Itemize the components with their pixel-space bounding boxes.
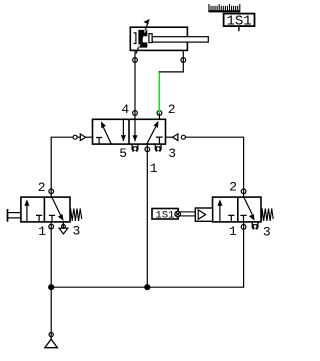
right 3/2 right box: blocked T (port 1) bbox=[240, 215, 246, 222]
svg-text:5: 5 bbox=[119, 146, 127, 161]
cylinder body bbox=[130, 27, 187, 50]
svg-text:2: 2 bbox=[168, 102, 176, 117]
svg-text:1: 1 bbox=[229, 224, 237, 239]
marker stem bbox=[238, 26, 240, 31]
distance rule bbox=[209, 4, 240, 12]
connection circles bbox=[49, 58, 246, 337]
left 3/2 push button bbox=[7, 209, 9, 222]
wire right valve port 1 to bus bbox=[243, 222, 245, 287]
svg-text:2: 2 bbox=[229, 180, 237, 195]
5/2 pilot left (14) bbox=[77, 136, 80, 138]
cylinder cushion bracket bbox=[134, 33, 136, 44]
compressed air supply bbox=[45, 339, 58, 348]
5/2 pilot right (12) bbox=[166, 136, 173, 138]
5/2 right box: flow 1-2 arrow bbox=[147, 126, 156, 144]
svg-text:3: 3 bbox=[263, 225, 271, 240]
green pressurized line bbox=[158, 72, 160, 113]
cylinder piston rod bbox=[152, 37, 208, 42]
wire cylinder left port to valve port 4 bbox=[134, 50, 136, 119]
5/2 muffler port 3 bbox=[155, 144, 162, 152]
left 3/2 right box: blocked T (port 1) bbox=[49, 215, 55, 222]
left 3/2 valve body bbox=[21, 197, 70, 222]
right 3/2 valve body bbox=[213, 197, 262, 222]
svg-text:1S1: 1S1 bbox=[156, 209, 175, 221]
junction dot left bbox=[48, 284, 54, 290]
left 3/2 right box: flow 2-3 arrow bbox=[52, 197, 61, 215]
svg-text:3: 3 bbox=[168, 146, 176, 161]
wire cylinder right port down bbox=[182, 50, 184, 72]
svg-text:3: 3 bbox=[73, 224, 81, 239]
5/2 muffler port 5 bbox=[132, 144, 139, 152]
left 3/2 exhaust triangle port 3 bbox=[59, 228, 68, 234]
svg-text:2: 2 bbox=[38, 180, 46, 195]
right 3/2 left box: blocked T bbox=[228, 215, 234, 222]
left 3/2 left box: blocked T bbox=[36, 215, 42, 222]
svg-text:1: 1 bbox=[150, 161, 158, 176]
right 3/2 return spring bbox=[262, 208, 274, 221]
wire valve port 1 to bus bbox=[146, 144, 148, 287]
5/2 left box: flow 2-3 down arrow bbox=[122, 119, 124, 141]
right 3/2 actuator box bbox=[195, 208, 212, 221]
5/2 left box: blocked port T bbox=[96, 138, 102, 145]
right 3/2 left box: flow up arrow bbox=[219, 205, 221, 222]
right 3/2 muffler port 3 bbox=[252, 222, 259, 230]
5/2 right box: blocked port T bbox=[156, 137, 163, 144]
valve 5/2 body bbox=[93, 119, 166, 144]
right 3/2 label box 1S1 bbox=[152, 209, 178, 220]
right 3/2 actuation fork bbox=[180, 211, 195, 213]
svg-text:1: 1 bbox=[38, 224, 46, 239]
wire left valve port 1 to air supply bbox=[50, 222, 52, 339]
wire valve port 2 stub bbox=[158, 113, 160, 119]
5/2 left box: flow 1-4 arrow bbox=[103, 127, 111, 144]
junction dot middle bbox=[144, 284, 150, 290]
wire pilot 12 to right valve port 2 bbox=[185, 137, 243, 197]
cylinder piston (magnet) bbox=[138, 30, 147, 48]
left 3/2 left box: flow up arrow bbox=[26, 205, 28, 222]
wire horizontal corner bbox=[159, 71, 184, 73]
wire pilot 14 to left valve port 2 bbox=[51, 137, 73, 197]
right 3/2 right box: flow 2-3 arrow bbox=[244, 198, 252, 215]
label 1S1 marker box on distance rule bbox=[224, 14, 255, 27]
cylinder rod mount bbox=[149, 34, 152, 43]
right 3/2 coupling circle bbox=[175, 211, 181, 217]
wire bottom bus bbox=[51, 286, 244, 288]
svg-text:4: 4 bbox=[121, 102, 129, 117]
left 3/2 return spring bbox=[70, 208, 82, 221]
5/2 right box: flow 4-5 down arrow bbox=[134, 119, 136, 141]
